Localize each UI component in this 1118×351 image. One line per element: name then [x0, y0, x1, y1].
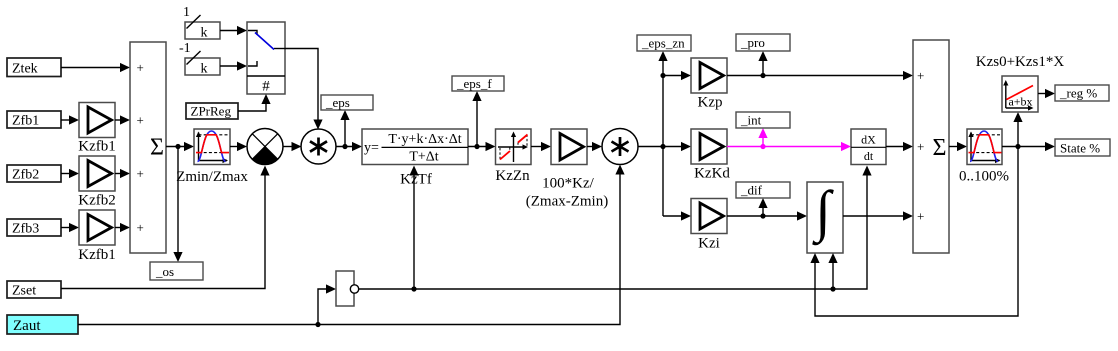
svg-text:State %: State %: [1060, 141, 1100, 156]
wire branch to gain Kzp: [663, 71, 691, 80]
wire Zfb3 to gain Kzfb1b: [61, 223, 79, 232]
wire junction up to _int (magenta): [758, 128, 767, 147]
derivative block dX/dt: [851, 129, 886, 165]
output box _reg %: [1055, 85, 1109, 101]
wire multiplier M1 to filter KzTf: [336, 142, 362, 151]
svg-text:Kzfb2: Kzfb2: [78, 193, 116, 209]
gain KzKd: [691, 129, 730, 182]
input Zset: [7, 281, 61, 299]
label box _os: [150, 262, 203, 280]
svg-text:+: +: [137, 60, 144, 75]
box ZPrReg: [186, 103, 238, 119]
wire gain Kzfb2 to sum S1: [115, 169, 130, 178]
gain Kzfb1b: [78, 210, 116, 263]
svg-text:_dif: _dif: [740, 183, 763, 198]
label box _int: [736, 112, 790, 128]
svg-text:KzZn: KzZn: [495, 168, 530, 184]
svg-text:Zfb3: Zfb3: [12, 222, 39, 237]
wire gain Kzfb1b to sum S1: [115, 223, 130, 232]
svg-text:Zfb1: Zfb1: [12, 114, 39, 129]
svg-text:ZPrReg: ZPrReg: [191, 104, 232, 119]
svg-text:Zset: Zset: [12, 284, 36, 299]
svg-text:_os: _os: [155, 264, 174, 279]
switch circle X (manual/auto): [247, 129, 283, 165]
svg-text:-1: -1: [179, 41, 191, 56]
svg-text:a+bx: a+bx: [1008, 95, 1032, 109]
svg-text:(Zmax-Zmin): (Zmax-Zmin): [526, 194, 608, 210]
wire junction up to KzTf bottom: [409, 166, 418, 290]
svg-text:Σ: Σ: [933, 135, 947, 161]
wire filter KzTf to deadzone KzZn: [468, 142, 496, 151]
wire dX/dt to sum S2: [886, 142, 913, 151]
svg-text:_eps_zn: _eps_zn: [641, 36, 685, 51]
gain Kzfb2: [78, 156, 116, 209]
svg-text:+: +: [137, 113, 144, 128]
svg-text:Kzfb1: Kzfb1: [78, 139, 116, 155]
wire k2 to switch U1: [220, 61, 247, 70]
node junction to _pro: [760, 73, 765, 78]
node junction to KzTf bottom: [411, 286, 416, 291]
svg-text:1: 1: [183, 5, 190, 20]
wire saturation to switch circle: [230, 142, 247, 151]
svg-text:0..100%: 0..100%: [959, 169, 1009, 185]
wire Zfb1 to gain Kzfb1: [61, 115, 79, 124]
input Zfb1: [7, 111, 61, 129]
wire junction up to a+bx: [1013, 112, 1022, 147]
wire junction up to integrator bottom: [828, 253, 837, 289]
wire switch U1 to multiplier M1: [285, 49, 323, 130]
wire Zset to switch circle bottom: [61, 166, 270, 289]
deadzone block KzZn: [495, 129, 531, 184]
svg-text:_eps_f: _eps_f: [456, 76, 492, 91]
NOT block: [336, 271, 359, 306]
node output junction: [1015, 144, 1020, 149]
sum S2: [913, 40, 949, 253]
node junction to _eps_f: [474, 144, 479, 149]
svg-text:Σ: Σ: [150, 135, 164, 161]
multiplier M1: [301, 129, 336, 164]
svg-text:#: #: [262, 79, 270, 95]
svg-text:_reg %: _reg %: [1059, 86, 1097, 101]
svg-text:+: +: [917, 209, 924, 224]
saturation block 0..100%: [959, 129, 1009, 185]
svg-text:Kzs0+Kzs1*X: Kzs0+Kzs1*X: [976, 54, 1065, 70]
wire branch to gain Kzi: [663, 211, 691, 220]
wire integrator to sum S2: [843, 211, 913, 220]
gain block k2: [185, 51, 220, 77]
svg-text:dX: dX: [861, 133, 876, 147]
gain block k1: [185, 15, 220, 41]
svg-text:Kzfb1: Kzfb1: [78, 247, 116, 263]
wire junction up to _eps_f: [472, 91, 481, 147]
svg-text:Ztek: Ztek: [12, 62, 38, 77]
wire junction up to _eps: [340, 110, 349, 147]
node junction to _dif: [760, 213, 765, 218]
svg-text:Zmin/Zmax: Zmin/Zmax: [176, 169, 248, 185]
input Ztek: [7, 58, 61, 77]
wire 0..100% to State %: [1002, 142, 1055, 151]
svg-text:T·y+k·Δx·Δt: T·y+k·Δx·Δt: [388, 132, 461, 147]
svg-text:Zfb2: Zfb2: [12, 168, 39, 183]
svg-text:Zaut: Zaut: [13, 318, 41, 334]
wire junction up to _dif: [758, 198, 767, 216]
svg-text:k: k: [201, 26, 208, 41]
wire k1 to switch U1: [220, 26, 247, 35]
saturation block Zmin/Zmax: [176, 129, 248, 185]
svg-text:_eps: _eps: [325, 95, 350, 110]
input Zfb3: [7, 219, 61, 237]
wire gain KzKd to dX/dt (magenta): [727, 142, 851, 151]
output box State %: [1055, 139, 1110, 156]
wire junction up to _pro: [758, 51, 767, 76]
switch block U1 #: [247, 22, 285, 95]
multiplier M2: [602, 129, 638, 165]
label box _pro: [736, 34, 790, 51]
wire gain Kzp to sum S2: [727, 71, 913, 80]
node junction to _int (magenta): [760, 144, 765, 149]
gain Kzfb1: [78, 103, 116, 155]
input Zfb2: [7, 165, 61, 183]
wire Zaut to multiplier M2 bottom: [78, 165, 625, 325]
sum S1: [130, 42, 166, 253]
node junction Kzp branch: [660, 73, 665, 78]
wire NOT output to dX/dt bottom: [359, 166, 872, 290]
label box _eps_f: [452, 76, 504, 91]
node junction to _os: [175, 144, 180, 149]
wire gain Kzi to integrator: [727, 211, 807, 220]
wire ZPrReg to switch U1 select: [238, 94, 271, 111]
integrator block: [807, 180, 843, 253]
svg-text:k: k: [201, 62, 208, 77]
node junction to integrator bottom: [830, 286, 835, 291]
gain Kzi: [691, 199, 727, 252]
node junction Zaut branch: [315, 322, 320, 327]
wire sum S1 to saturation Zmin/Zmax: [166, 142, 194, 151]
filter block KzTf: [362, 129, 468, 188]
label box _eps: [321, 95, 373, 110]
label box _eps_zn: [637, 35, 691, 51]
gain block 100*Kz/(Zmax-Zmin): [526, 129, 608, 210]
gain Kzp: [691, 58, 727, 111]
wire multiplier M2 to gain KzKd (main row): [638, 142, 691, 151]
wire sum S2 to saturation 0..100%: [949, 142, 967, 151]
svg-text:_pro: _pro: [740, 35, 765, 50]
wire gain to multiplier M2: [587, 142, 602, 151]
wire a+bx to _reg %: [1038, 89, 1055, 98]
wire branch vertical to _eps_zn and Kzp and Kzi: [658, 51, 667, 216]
wire feedback output to integrator reset: [810, 147, 1018, 317]
node branch junction: [660, 144, 665, 149]
linear block a+bx: [1002, 76, 1038, 112]
node junction to _eps: [342, 144, 347, 149]
svg-text:KzKd: KzKd: [694, 166, 730, 182]
svg-text:dt: dt: [864, 149, 874, 163]
input Zaut: [7, 315, 78, 334]
svg-text:+: +: [137, 220, 144, 235]
wire gain Kzfb1 to sum S1: [115, 115, 130, 124]
svg-text:+: +: [917, 139, 924, 154]
svg-text:+: +: [917, 68, 924, 83]
label box _dif: [736, 182, 790, 198]
svg-text:Kzp: Kzp: [698, 95, 723, 111]
svg-text:+: +: [137, 166, 144, 181]
svg-text:Kzi: Kzi: [698, 236, 720, 252]
svg-text:100*Kz/: 100*Kz/: [542, 176, 594, 192]
svg-text:_int: _int: [740, 113, 762, 128]
wire Zaut branch to NOT block: [318, 284, 336, 324]
wire Zfb2 to gain Kzfb2: [61, 169, 79, 178]
svg-text:T+Δt: T+Δt: [409, 150, 438, 165]
svg-text:y=: y=: [364, 141, 379, 156]
wire Ztek to sum S1: [61, 63, 130, 72]
wire switch circle to multiplier M1: [283, 142, 302, 151]
wire deadzone to gain 100*Kz: [531, 142, 551, 151]
wire junction down to _os: [173, 147, 182, 263]
